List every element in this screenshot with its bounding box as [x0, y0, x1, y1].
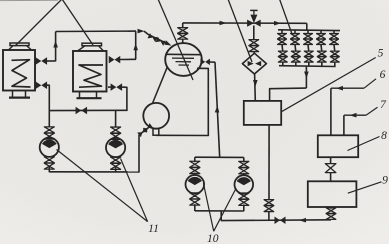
- three-way control valve: [247, 15, 261, 27]
- pipe tank2 wall to valve: [108, 86, 111, 88]
- leader to label 7: [366, 107, 378, 115]
- manifold bottom bus: [279, 65, 336, 68]
- stream 6 inlet stub: [331, 87, 364, 89]
- pump 11a suction valves: [44, 127, 54, 139]
- pipe strainer to box5: [254, 74, 257, 101]
- pipe nozzle to riser elbow: [210, 61, 216, 63]
- label 11: [148, 223, 159, 235]
- pump 10b discharge valves: [239, 193, 249, 211]
- drain valves: [264, 200, 274, 212]
- leader 11b: [121, 159, 148, 222]
- pipe tank2 valve to branch: [120, 58, 136, 60]
- pump 10a: [186, 175, 205, 194]
- manifold feed jog: [306, 23, 308, 30]
- feed valve 2 (on slope): [155, 37, 165, 46]
- branch down to tank2 valve: [135, 31, 137, 59]
- main overhead line: [183, 22, 307, 24]
- tank 2 foot: [77, 97, 102, 99]
- diagonal pipe vessel to aux tank: [153, 67, 168, 103]
- aux tank bottom line to vessel drain: [156, 68, 208, 135]
- leader to label 9: [348, 182, 382, 193]
- vessel top pipe: [182, 23, 184, 29]
- manifold valve columns (5 x 2 double valves): [278, 30, 340, 66]
- label 10: [207, 233, 219, 244]
- drain stem: [268, 211, 270, 220]
- vessel (mixer) body: [165, 43, 202, 76]
- tank 1 lower outlet valve: [36, 81, 48, 89]
- tank 2 body: [73, 51, 107, 92]
- stream 6 downcomer: [330, 88, 332, 135]
- angled pipe to auxiliary tank: [139, 126, 150, 135]
- pump 11a: [40, 138, 59, 157]
- drain header valve: [76, 107, 88, 115]
- tank 1 neck: [9, 46, 32, 50]
- leader 10b: [214, 188, 237, 231]
- pipe to box5 top: [270, 88, 307, 101]
- label 6: [380, 69, 386, 81]
- leader to label 8: [348, 137, 380, 151]
- flow arrow up riser: [215, 106, 220, 113]
- feed valve 1 (on slope): [147, 33, 157, 42]
- callout leader to filter (label cropped): [228, 0, 252, 62]
- label 5: [378, 48, 384, 60]
- tank 2 support legs: [80, 92, 97, 99]
- flow arrow down: [253, 80, 258, 87]
- strainer inner bowtie: [248, 61, 262, 66]
- transfer line to vessel (horizontal): [56, 30, 136, 32]
- flow arrow left (stream 6): [336, 86, 343, 91]
- pumps 11 discharge header: [49, 171, 139, 173]
- strainer (diamond filter): [242, 53, 266, 74]
- tank 1 foot: [9, 96, 30, 98]
- pump 11b suction riser: [115, 110, 117, 126]
- flow arrow left on return: [299, 218, 306, 223]
- flow arrow left (stream 7): [350, 113, 357, 118]
- manifold downcomer: [305, 66, 307, 88]
- valve between box8 and box9: [325, 157, 336, 181]
- drain riser tank1 / pump 11a suction: [48, 85, 50, 126]
- drain header: [49, 109, 127, 111]
- header drop to return line: [220, 211, 222, 221]
- box5 bottom drain: [268, 125, 270, 200]
- angled valve pair: [137, 123, 153, 137]
- tank 1 flange plate: [10, 43, 29, 46]
- flow arrow right: [220, 21, 227, 26]
- flow arrow up: [53, 41, 58, 48]
- box 9 (apparatus): [308, 181, 357, 207]
- box9 outlet valves: [326, 207, 336, 219]
- pump 11b discharge valves: [111, 157, 121, 169]
- label 7: [380, 99, 387, 111]
- tank 1 support legs: [13, 91, 26, 98]
- pumps 10 discharge header: [195, 210, 244, 212]
- pump 10a discharge valves: [190, 193, 200, 211]
- pump 10b suction valves: [239, 157, 249, 175]
- level dash 1: [172, 57, 194, 59]
- label 9: [382, 175, 388, 187]
- tank 2 upper outlet valve: [109, 56, 121, 64]
- flow arrow right on transfer line: [138, 29, 145, 34]
- pump 10a suction valves: [190, 157, 200, 175]
- leader 10a: [203, 183, 213, 231]
- callout leader to valve manifold (label cropped): [280, 0, 293, 34]
- leader to label 5: [281, 58, 375, 112]
- callout leader to tanks (label cropped): [15, 0, 93, 46]
- tank 2 flange plate: [82, 43, 102, 46]
- leader to label 6: [364, 79, 376, 88]
- stream 7 inlet stub: [344, 114, 366, 116]
- tank2 drain elbow: [122, 87, 127, 111]
- valve handle: [250, 10, 257, 14]
- riser from tank1 to transfer line: [55, 32, 57, 62]
- pump 11b discharge stub: [115, 166, 117, 172]
- riser pumps10 to vessel: [215, 62, 220, 157]
- flow arrow into vessel: [164, 40, 171, 45]
- box 5 (apparatus): [244, 101, 281, 125]
- pumps 10 suction header: [195, 156, 244, 158]
- pump 11b: [106, 138, 125, 157]
- vessel right nozzle valve: [200, 59, 210, 66]
- tank 1 heating coil: [12, 60, 31, 87]
- flow arrow up: [133, 43, 138, 50]
- leader 11a: [57, 150, 148, 222]
- vessel liquid level: [166, 53, 201, 55]
- level dash 2: [176, 61, 192, 63]
- tank 1 upper outlet valve: [36, 57, 48, 65]
- strainer inlet valves: [249, 40, 259, 52]
- pump 11a discharge valves: [44, 157, 54, 169]
- bottom return line: [221, 219, 331, 222]
- tank 2 lower outlet valve: [111, 83, 123, 91]
- sloped feed line into vessel: [144, 31, 169, 44]
- callout leader to vessel (label cropped): [158, 0, 193, 80]
- pipe tank1 valve to riser: [47, 60, 56, 62]
- riser to hand valve: [138, 135, 140, 173]
- pump 11a discharge stub: [48, 166, 50, 172]
- pipe tank1 lower valve to riser: [47, 84, 50, 86]
- manifold top bus: [278, 29, 340, 32]
- flow arrow down: [304, 72, 309, 79]
- label 8: [381, 130, 387, 142]
- level dash 3: [179, 64, 190, 66]
- pump 11b suction valves: [111, 127, 121, 139]
- box 8 (apparatus): [318, 135, 358, 157]
- tank 2 neck: [78, 46, 104, 51]
- drop to strainer: [253, 26, 255, 41]
- pump 10b: [235, 175, 254, 194]
- auxiliary tank (circle): [143, 103, 169, 129]
- return line valve: [275, 216, 286, 224]
- tank 1 body: [3, 50, 35, 91]
- stem to strainer: [253, 51, 256, 53]
- tank 2 heating coil: [79, 65, 103, 87]
- vessel top valve stem: [182, 39, 184, 44]
- stream 7 downcomer: [343, 115, 345, 135]
- vessel top valve: [178, 28, 188, 40]
- flow arrow right: [274, 21, 281, 26]
- scan edge artifact (top-left): [0, 0, 58, 2]
- auxiliary tank stem: [153, 129, 159, 136]
